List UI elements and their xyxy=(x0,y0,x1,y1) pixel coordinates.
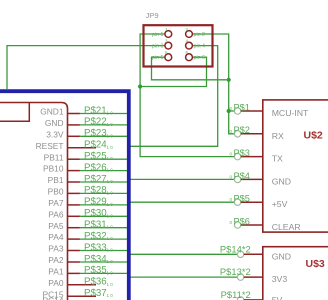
wire bus to U$3 3V3 xyxy=(130,276,237,278)
pin PA5 (P$31) xyxy=(48,220,128,231)
svg-text:PB1: PB1 xyxy=(48,175,64,185)
svg-text:1 0: 1 0 xyxy=(107,202,114,207)
svg-text:1 0: 1 0 xyxy=(107,259,114,264)
pin GND1 (P$21) xyxy=(40,105,128,116)
svg-text:1 0: 1 0 xyxy=(107,236,114,241)
wire JP9 pin2 to U$2 P$2 xyxy=(192,34,234,134)
svg-text:1 0: 1 0 xyxy=(107,122,114,127)
svg-text:P$27: P$27 xyxy=(84,174,107,185)
svg-text:P$36: P$36 xyxy=(84,277,107,288)
svg-text:PB11: PB11 xyxy=(44,152,64,162)
svg-text:P$6: P$6 xyxy=(234,216,250,226)
pin PA0 (P$36) xyxy=(48,277,113,288)
junction at 228.7,79.8 xyxy=(227,78,231,82)
pin PB1 (P$27) xyxy=(48,174,128,185)
junction at 228.7,111 xyxy=(227,109,231,113)
connector JP9 body xyxy=(144,25,213,66)
svg-text:5V: 5V xyxy=(272,295,283,300)
pin RESET (P$24) xyxy=(36,140,114,151)
IC U1 inner notch box xyxy=(0,103,29,121)
wire JP9 pin6 down-left xyxy=(140,57,206,86)
svg-text:1 0: 1 0 xyxy=(107,213,114,218)
wire net to JP9 pin3 (left run) xyxy=(7,46,165,89)
wire JP9 pin5 down-right xyxy=(152,57,229,80)
svg-text:GND1: GND1 xyxy=(40,107,64,117)
wire bus to U$2 P$5 xyxy=(130,201,234,203)
U$3 pin P$13*2 (3V3) xyxy=(220,266,287,284)
svg-text:PB10: PB10 xyxy=(43,164,64,174)
svg-text:P$33: P$33 xyxy=(84,242,107,253)
svg-text:CLEAR: CLEAR xyxy=(272,222,301,232)
IC U1 body outline xyxy=(0,103,68,300)
pin PC14 (P$38) xyxy=(43,296,114,300)
JP9 pad 6 (right) xyxy=(186,50,206,61)
svg-text:P$13*2: P$13*2 xyxy=(220,266,251,277)
svg-text:pin 3: pin 3 xyxy=(152,43,164,49)
U$2 pin P$5 (+5V) xyxy=(229,194,287,210)
connector JP9 label xyxy=(146,11,159,20)
svg-text:1 0: 1 0 xyxy=(107,190,114,195)
svg-text:PA2: PA2 xyxy=(48,255,64,265)
pin PA2 (P$34) xyxy=(48,254,128,265)
svg-text:3.3V: 3.3V xyxy=(46,129,64,139)
svg-text:P$31: P$31 xyxy=(84,220,107,231)
wire TX net: JP9 pad1 to U$2 P$3 xyxy=(140,34,234,157)
IC U$2 body xyxy=(263,100,328,232)
bus (blue) xyxy=(0,91,129,300)
IC U$3 body xyxy=(263,247,328,300)
svg-text:3V3: 3V3 xyxy=(272,274,288,284)
svg-text:P$34: P$34 xyxy=(84,254,107,265)
svg-text:P$21: P$21 xyxy=(84,105,107,116)
U$2 pin P$4 (GND) xyxy=(229,171,291,187)
U$3 pin P$14*2 (GND) xyxy=(220,243,291,261)
svg-text:U$2: U$2 xyxy=(304,130,323,142)
svg-text:MCU-INT: MCU-INT xyxy=(272,108,309,118)
svg-text:P$4: P$4 xyxy=(234,171,250,181)
svg-text:1 0: 1 0 xyxy=(107,270,114,275)
svg-text:JP9: JP9 xyxy=(146,11,159,20)
svg-text:1 0: 1 0 xyxy=(107,133,114,138)
svg-text:pin 4: pin 4 xyxy=(194,43,206,49)
svg-text:GND: GND xyxy=(272,176,291,186)
svg-text:PA0: PA0 xyxy=(48,278,64,288)
svg-text:P$32: P$32 xyxy=(84,231,107,242)
svg-text:1 0: 1 0 xyxy=(107,225,114,230)
svg-text:U$3: U$3 xyxy=(306,258,325,270)
wire bus to U$3 GND xyxy=(130,253,237,255)
svg-text:PA7: PA7 xyxy=(48,198,64,208)
svg-text:P$35: P$35 xyxy=(84,265,107,276)
svg-text:PA6: PA6 xyxy=(48,209,64,219)
pin PC15 (P$37) xyxy=(43,288,114,299)
pin PB11 (P$25) xyxy=(44,151,128,162)
pin PA3 (P$33) xyxy=(48,242,128,253)
svg-text:P$1: P$1 xyxy=(234,102,250,112)
svg-text:pin 2: pin 2 xyxy=(194,32,206,38)
U$2 pin P$2 (RX) xyxy=(229,125,283,141)
svg-text:P$23: P$23 xyxy=(84,128,107,139)
svg-text:1 0: 1 0 xyxy=(107,168,114,173)
svg-text:GND: GND xyxy=(272,251,291,261)
svg-text:1 0: 1 0 xyxy=(107,248,114,253)
svg-text:PB0: PB0 xyxy=(48,187,64,197)
svg-text:P$29: P$29 xyxy=(84,197,107,208)
svg-text:1 0: 1 0 xyxy=(107,156,114,161)
svg-text:1 0: 1 0 xyxy=(107,282,114,287)
JP9 pad 5 (left) xyxy=(152,50,172,61)
svg-text:PA4: PA4 xyxy=(48,232,64,242)
svg-text:1 0: 1 0 xyxy=(107,293,114,298)
svg-text:pin 1: pin 1 xyxy=(152,32,164,38)
svg-text:PA5: PA5 xyxy=(48,221,64,231)
svg-text:pin 6: pin 6 xyxy=(194,55,206,61)
pin PA4 (P$32) xyxy=(48,231,128,242)
svg-text:P$30: P$30 xyxy=(84,208,107,219)
svg-text:P$5: P$5 xyxy=(234,194,250,204)
wire bus to U$2 P$4 xyxy=(130,178,234,180)
JP9 pad 3 (left) xyxy=(152,38,172,49)
svg-text:PA1: PA1 xyxy=(48,267,64,277)
svg-text:P$11*2: P$11*2 xyxy=(221,289,251,300)
pin PB0 (P$28) xyxy=(48,185,128,196)
svg-text:P$37: P$37 xyxy=(84,288,107,299)
IC U$2 name xyxy=(304,130,323,142)
pin PB10 (P$26) xyxy=(43,162,128,173)
U$3 pin P$11*2 (5V) xyxy=(221,289,283,300)
pin PA6 (P$30) xyxy=(48,208,128,219)
wire JP9 pin4 to bus (RESET row) xyxy=(130,46,218,147)
svg-text:P$2: P$2 xyxy=(234,125,250,135)
svg-text:P$26: P$26 xyxy=(84,162,107,173)
svg-text:P$3: P$3 xyxy=(234,148,250,158)
svg-text:PC14: PC14 xyxy=(43,296,64,300)
svg-text:P$22: P$22 xyxy=(84,117,107,128)
U$2 pin P$6 (CLEAR) xyxy=(229,216,300,232)
svg-text:TX: TX xyxy=(272,154,283,164)
JP9 pad 4 (right) xyxy=(186,38,206,49)
pin PA1 (P$35) xyxy=(48,265,128,276)
svg-text:+5V: +5V xyxy=(272,199,288,209)
U$2 pin P$1 (MCU-INT) xyxy=(229,102,309,118)
JP9 pad 1 (left) xyxy=(152,27,172,38)
svg-text:P$24: P$24 xyxy=(84,140,107,151)
JP9 pad 2 (right) xyxy=(186,27,206,38)
svg-text:RESET: RESET xyxy=(36,141,64,151)
svg-text:1 0: 1 0 xyxy=(107,111,114,116)
IC U$3 name xyxy=(306,258,325,270)
stub U$2 P$1 xyxy=(229,110,235,112)
svg-text:1 0: 1 0 xyxy=(107,145,114,150)
svg-text:GND: GND xyxy=(45,118,64,128)
U$2 pin P$3 (TX) xyxy=(229,148,283,164)
svg-text:1 0: 1 0 xyxy=(107,179,114,184)
junction at 139.7,86.5 xyxy=(138,84,142,88)
pin PA7 (P$29) xyxy=(48,197,128,208)
svg-text:PA3: PA3 xyxy=(48,244,64,254)
pin 3.3V (P$23) xyxy=(46,128,128,139)
svg-text:P$14*2: P$14*2 xyxy=(220,243,251,254)
svg-text:pin 5: pin 5 xyxy=(152,55,164,61)
svg-text:RX: RX xyxy=(272,131,284,141)
pin GND (P$22) xyxy=(45,117,128,128)
svg-text:P$25: P$25 xyxy=(84,151,107,162)
svg-text:P$28: P$28 xyxy=(84,185,107,196)
